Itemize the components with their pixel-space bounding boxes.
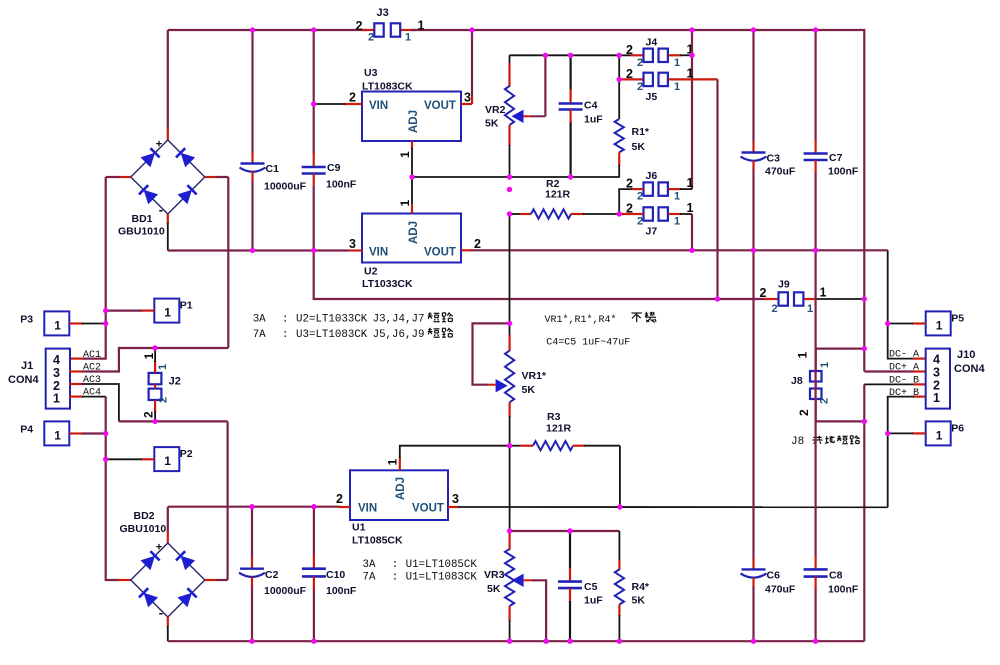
svg-text:ADJ: ADJ bbox=[408, 221, 420, 244]
wire: J4-2 riser from y55 to J5-2 and R1 bbox=[618, 55, 620, 80]
svg-text:3: 3 bbox=[452, 492, 459, 506]
svg-text:1: 1 bbox=[674, 191, 680, 203]
svg-text:-: - bbox=[159, 605, 163, 620]
wire: top bus right segment (VOUT-A rail) bbox=[411, 30, 864, 372]
jumper J9 bbox=[760, 279, 827, 316]
svg-text:1: 1 bbox=[796, 352, 810, 359]
svg-text:1: 1 bbox=[933, 391, 940, 405]
svg-text:1uF: 1uF bbox=[584, 114, 603, 126]
bridge rectifier BD1 bbox=[118, 139, 205, 238]
svg-text:+: + bbox=[156, 542, 162, 554]
connector J1 CON4 bbox=[8, 349, 70, 409]
wire: J8 pin1 up to DC+A rail bbox=[815, 359, 817, 371]
svg-text:3: 3 bbox=[933, 366, 940, 380]
svg-text:100nF: 100nF bbox=[828, 166, 859, 178]
svg-text:VOUT: VOUT bbox=[412, 503, 444, 515]
potentiometer VR1* 5K bbox=[473, 323, 547, 417]
wire: J6 pin1 to riser bbox=[669, 188, 682, 190]
svg-text:DC- A: DC- A bbox=[889, 350, 919, 361]
svg-text:VIN: VIN bbox=[369, 247, 388, 259]
svg-text:VR2: VR2 bbox=[485, 104, 506, 116]
jumper J8 (vertical) bbox=[791, 352, 831, 417]
op-amp U3 regulator LT1083CK bbox=[362, 67, 461, 141]
wire: BD1 AC left lead bbox=[118, 176, 131, 178]
wire: DC- B feed from bottom rail riser to J10 pin 2 bbox=[863, 384, 865, 641]
svg-text:J6: J6 bbox=[646, 170, 658, 182]
svg-text:2: 2 bbox=[142, 411, 156, 418]
capacitor C3 (470uF) bbox=[741, 30, 796, 250]
svg-text:DC+ B: DC+ B bbox=[889, 388, 919, 399]
wire: BD1 - corner down to 0V rail A bbox=[167, 214, 169, 225]
svg-text:5K: 5K bbox=[485, 118, 499, 130]
svg-text:C4: C4 bbox=[584, 100, 598, 112]
svg-text:P4: P4 bbox=[20, 423, 33, 435]
svg-text:1: 1 bbox=[687, 176, 694, 190]
wire: DC+ A feed to J10 pin 3 bbox=[864, 370, 914, 372]
resistor R2 121R bbox=[510, 178, 620, 219]
svg-text:J5: J5 bbox=[646, 91, 658, 103]
wire: U2 VOUT bus drop to DC- A / J10 pin 4 bbox=[888, 250, 914, 358]
connector P4 bbox=[20, 421, 69, 445]
svg-text:DC+ A: DC+ A bbox=[889, 363, 919, 374]
svg-text:J9: J9 bbox=[778, 279, 790, 291]
svg-text:121R: 121R bbox=[546, 423, 572, 435]
wire: riser top bus to BD1 + corner bbox=[167, 30, 169, 129]
svg-text:3: 3 bbox=[464, 91, 471, 105]
svg-text:1: 1 bbox=[164, 454, 171, 468]
svg-text:7A: 7A bbox=[363, 572, 376, 584]
wire: top bus left segment (BD1+ rail) bbox=[168, 29, 367, 31]
svg-text:LT1083CK: LT1083CK bbox=[362, 81, 413, 93]
svg-text::: : bbox=[392, 572, 398, 584]
svg-text:C6: C6 bbox=[767, 570, 781, 582]
svg-text:10000uF: 10000uF bbox=[264, 585, 307, 597]
wire: U3 VIN pin lead bbox=[344, 103, 362, 105]
svg-text:VIN: VIN bbox=[369, 100, 388, 112]
svg-text::: : bbox=[282, 329, 288, 341]
svg-text:2: 2 bbox=[760, 286, 767, 300]
svg-text:2: 2 bbox=[474, 237, 481, 251]
wire: left riser upper (BD1 AC-left / P1 / P3 / AC1) bbox=[82, 177, 106, 359]
svg-text:1: 1 bbox=[674, 57, 680, 69]
svg-text:GBU1010: GBU1010 bbox=[118, 226, 165, 238]
svg-text:4: 4 bbox=[933, 353, 940, 367]
wire: U2 ADJ up to ADJ node bbox=[411, 177, 413, 205]
svg-text:2: 2 bbox=[356, 19, 363, 33]
svg-text:J8: J8 bbox=[791, 375, 803, 387]
capacitor C9 (100nF) bbox=[302, 30, 357, 251]
svg-text:1: 1 bbox=[398, 151, 412, 158]
svg-text:C1: C1 bbox=[266, 163, 280, 175]
wire: VR2 bottom to ADJ line bbox=[509, 145, 511, 177]
svg-text:J3,J4,J7: J3,J4,J7 bbox=[373, 314, 425, 326]
wire: VR1 bottom to R3 node bbox=[509, 416, 511, 446]
svg-text:CON4: CON4 bbox=[954, 363, 985, 375]
svg-text:CON4: CON4 bbox=[8, 374, 39, 386]
svg-text:1: 1 bbox=[142, 353, 156, 360]
wire: J8 mid lead bbox=[815, 382, 817, 389]
capacitor C8 (100nF) bbox=[804, 250, 859, 641]
wire: left riser lower (AC4 / P4 / P2 / BD2 AC-left) bbox=[106, 397, 118, 580]
svg-text:U1=LT1085CK: U1=LT1085CK bbox=[406, 559, 478, 571]
svg-text:2: 2 bbox=[349, 91, 356, 105]
wire: U1 ADJ loop to R3 node bbox=[399, 457, 401, 470]
svg-text:2: 2 bbox=[637, 216, 643, 228]
svg-text:J5,J6,J9: J5,J6,J9 bbox=[373, 329, 425, 341]
capacitor C2 (10000uF) bbox=[239, 507, 307, 642]
svg-text:5K: 5K bbox=[632, 141, 646, 153]
svg-text:4: 4 bbox=[53, 353, 60, 367]
wire: U3 ADJ down bbox=[411, 141, 413, 149]
svg-text:U3: U3 bbox=[364, 67, 378, 79]
wire: VIN-B rail (BD2+ / C2 / C10 to U1 VIN) bbox=[168, 506, 339, 508]
svg-text:3A: 3A bbox=[363, 559, 376, 571]
svg-text:BD2: BD2 bbox=[134, 510, 155, 522]
wire: J3 pin2 lead bbox=[362, 29, 374, 31]
svg-text:1: 1 bbox=[386, 459, 400, 466]
svg-text:ADJ: ADJ bbox=[408, 110, 420, 133]
svg-text:1uF: 1uF bbox=[584, 595, 603, 607]
svg-text:R1*: R1* bbox=[632, 126, 650, 138]
svg-text:J2: J2 bbox=[169, 376, 181, 388]
svg-text:1: 1 bbox=[53, 392, 60, 406]
wire: J7 pin1 down to U2 VOUT bus bbox=[669, 213, 682, 215]
wire: U2 VIN lead bbox=[349, 249, 362, 251]
svg-text::: : bbox=[392, 559, 398, 571]
svg-text:C4=C5 1uF~47uF: C4=C5 1uF~47uF bbox=[546, 338, 630, 349]
wire: J3 pin1 lead bbox=[400, 29, 416, 31]
svg-text:J3: J3 bbox=[377, 7, 389, 19]
op-amp U2 regulator LT1033CK bbox=[362, 214, 461, 263]
svg-text:P6: P6 bbox=[951, 422, 964, 434]
wire: J8 pin2 down to DC-B rail bbox=[815, 399, 817, 411]
svg-text:1: 1 bbox=[936, 318, 943, 332]
svg-text:AC1: AC1 bbox=[83, 350, 101, 361]
wire: AC3 riser to BD2 bbox=[227, 421, 229, 580]
svg-text:2: 2 bbox=[626, 43, 633, 57]
wire: P5 lead bbox=[912, 322, 926, 324]
wire: J2 pin2 bbox=[154, 400, 156, 412]
svg-text:1: 1 bbox=[54, 428, 61, 442]
wire: ADJ node line (U3/U2 ADJ to VR2 and C4) bbox=[412, 176, 619, 178]
wire: DC+ B feed (U1 VOUT riser to J10 pin 1) bbox=[913, 396, 926, 398]
svg-text:BD1: BD1 bbox=[132, 213, 153, 225]
svg-text:1: 1 bbox=[164, 306, 171, 320]
svg-text:U3=LT1083CK: U3=LT1083CK bbox=[296, 329, 368, 341]
svg-text:1: 1 bbox=[405, 32, 411, 44]
svg-text:1: 1 bbox=[807, 303, 813, 315]
svg-text:R3: R3 bbox=[547, 411, 561, 423]
svg-text:2: 2 bbox=[797, 409, 811, 416]
wire: J2 pin1 bbox=[154, 361, 156, 373]
note: 7A config U3 bbox=[253, 328, 453, 341]
svg-text:100nF: 100nF bbox=[326, 179, 357, 191]
potentiometer VR2 5K bbox=[485, 55, 545, 146]
note: 3A config U2 bbox=[253, 312, 453, 325]
svg-text:1: 1 bbox=[54, 318, 61, 332]
svg-text:J7: J7 bbox=[646, 226, 658, 238]
wire: AC3 path to BD2 right bbox=[69, 383, 83, 385]
wire: BD1 AC right lead bbox=[205, 176, 217, 178]
wire: U1 VOUT line to DC+B riser bbox=[448, 506, 459, 508]
note: VR1 R1 R4 not installed bbox=[545, 312, 657, 326]
connector J10 CON4 bbox=[926, 349, 986, 409]
svg-text:-: - bbox=[159, 202, 163, 217]
svg-text:C5: C5 bbox=[584, 581, 598, 593]
wire: AC2 riser (BD1 right to AC2 line) bbox=[227, 177, 229, 348]
bridge rectifier BD2 bbox=[120, 510, 205, 620]
svg-text:2: 2 bbox=[637, 81, 643, 93]
jumper J6 bbox=[626, 170, 694, 203]
connector P5 bbox=[926, 311, 965, 335]
svg-text:1: 1 bbox=[820, 286, 827, 300]
wire: P3 lead bbox=[69, 322, 83, 324]
svg-text:470uF: 470uF bbox=[765, 166, 796, 178]
svg-text:2: 2 bbox=[336, 492, 343, 506]
svg-text:100nF: 100nF bbox=[326, 585, 357, 597]
wire: AC2 path to BD1 right bbox=[69, 370, 83, 372]
wire: VR2/VR1 column (R2 node down to VR1) bbox=[509, 214, 511, 336]
wire: riser x=717.5 (J5-1 down to J9-2 line) bbox=[716, 79, 718, 299]
svg-text:1: 1 bbox=[687, 201, 694, 215]
svg-text:U1=LT1083CK: U1=LT1083CK bbox=[406, 572, 478, 584]
svg-text:3: 3 bbox=[349, 237, 356, 251]
svg-text:VOUT: VOUT bbox=[424, 100, 456, 112]
svg-text:2: 2 bbox=[772, 303, 778, 315]
svg-text:121R: 121R bbox=[545, 189, 571, 201]
svg-text:U1: U1 bbox=[352, 522, 366, 534]
svg-text:7A: 7A bbox=[253, 329, 266, 341]
wire: BD2 AC right lead bbox=[205, 579, 217, 581]
wire: bottom bus (BD2- rail) bbox=[168, 640, 865, 642]
resistor R4* 5K bbox=[615, 531, 650, 641]
svg-text:DC- B: DC- B bbox=[889, 376, 919, 387]
op-amp U1 regulator LT1085CK bbox=[350, 470, 448, 520]
svg-text:U2: U2 bbox=[364, 266, 378, 278]
wire: U1 VIN lead bbox=[338, 506, 350, 508]
connector P6 bbox=[926, 421, 965, 445]
svg-text:J1: J1 bbox=[21, 360, 33, 372]
resistor R1* 5K bbox=[615, 79, 650, 177]
svg-text:5K: 5K bbox=[487, 583, 501, 595]
wire: VR1/VR3 column through VOUT crossing bbox=[509, 446, 511, 531]
svg-text:VIN: VIN bbox=[358, 503, 377, 515]
connector P2 bbox=[154, 447, 193, 471]
svg-text:2: 2 bbox=[368, 32, 374, 44]
svg-text:J10: J10 bbox=[957, 349, 975, 361]
svg-text:VR1*: VR1* bbox=[522, 370, 547, 382]
wire: P4 lead bbox=[69, 432, 83, 434]
wire: VOUT-A rail riser x=692 bbox=[691, 30, 693, 189]
jumper J7 bbox=[626, 201, 694, 238]
connector P1 bbox=[154, 299, 193, 323]
wire: R3 right drop to U1 VOUT line bbox=[619, 446, 621, 507]
svg-text:1: 1 bbox=[674, 216, 680, 228]
wire: VR2 top line to J4-2 (y=55) bbox=[510, 54, 632, 56]
wire: J4 pin1 to rail bbox=[669, 54, 682, 56]
capacitor C1 (10000uF electrolytic) bbox=[240, 30, 307, 251]
svg-text:U2=LT1033CK: U2=LT1033CK bbox=[296, 314, 368, 326]
wire: U2 VOUT bus to right bbox=[471, 249, 888, 251]
svg-text:P1: P1 bbox=[180, 300, 193, 312]
svg-text:C7: C7 bbox=[829, 152, 843, 164]
wire: J9 pin2 lead bbox=[764, 298, 779, 300]
svg-text:100nF: 100nF bbox=[828, 584, 859, 596]
wire: J2 mid lead bbox=[154, 384, 156, 388]
svg-text:VR3: VR3 bbox=[484, 569, 505, 581]
svg-text:1: 1 bbox=[674, 81, 680, 93]
svg-text:VOUT: VOUT bbox=[424, 247, 456, 259]
svg-text:P2: P2 bbox=[180, 448, 193, 460]
svg-text:C9: C9 bbox=[327, 162, 341, 174]
svg-text:3: 3 bbox=[53, 366, 60, 380]
svg-text:1: 1 bbox=[418, 19, 425, 33]
wire: J4 pin2 lead bbox=[631, 54, 644, 56]
capacitor C10 (100nF) bbox=[302, 507, 357, 642]
wire: J5 pin2 lead bbox=[619, 78, 643, 80]
capacitor C7 (100nF) bbox=[804, 30, 859, 250]
jumper J2 (vertical) bbox=[142, 353, 181, 419]
wire: U2 VOUT lead bbox=[461, 249, 472, 251]
svg-text:5K: 5K bbox=[632, 595, 646, 607]
capacitor C6 (470uF) bbox=[741, 250, 796, 641]
wire: AC4 path bbox=[69, 396, 83, 398]
svg-text:C2: C2 bbox=[265, 569, 279, 581]
wire: J5 pin1 to x=717 riser bbox=[669, 78, 718, 80]
wire: 0V rail A (BD1- / C1 / C9 to U2 VIN) bbox=[168, 249, 349, 251]
capacitor C4 (1uF) bbox=[559, 55, 604, 177]
resistor R3 121R bbox=[510, 411, 620, 450]
svg-text:ADJ: ADJ bbox=[395, 477, 407, 500]
svg-text:C10: C10 bbox=[326, 569, 345, 581]
wire: J7 pin2 lead bbox=[619, 213, 643, 215]
svg-text:P5: P5 bbox=[951, 312, 964, 324]
wire: J9 pin1 lead bbox=[804, 298, 816, 300]
svg-text:2: 2 bbox=[819, 398, 831, 404]
svg-text:10000uF: 10000uF bbox=[264, 181, 307, 193]
wire: divider rail y=531 (VR3 / C5 / R4) bbox=[510, 530, 620, 532]
wire: BD2 + corner to VIN-B rail bbox=[167, 530, 169, 543]
svg-text:5K: 5K bbox=[522, 384, 536, 396]
jumper J3 bbox=[356, 7, 425, 44]
wire: P1 lead bbox=[141, 310, 154, 312]
svg-text:2: 2 bbox=[637, 57, 643, 69]
svg-text:GBU1010: GBU1010 bbox=[120, 523, 167, 535]
svg-text:VR1*,R1*,R4*: VR1*,R1*,R4* bbox=[545, 314, 617, 326]
svg-text:1: 1 bbox=[398, 200, 412, 207]
svg-text:+: + bbox=[156, 139, 162, 151]
wire: raw rail A extension down to J9-2 bbox=[314, 251, 765, 300]
svg-text:2: 2 bbox=[158, 397, 170, 403]
wire: BD2 AC-left lead bbox=[117, 579, 131, 581]
svg-text:R4*: R4* bbox=[632, 581, 650, 593]
svg-text:1: 1 bbox=[157, 364, 169, 370]
wire: J6 pin2 drop to J7/R2 node bbox=[631, 188, 644, 190]
wire: P2 lead bbox=[141, 458, 154, 460]
capacitor C5 (1uF) bbox=[558, 531, 603, 641]
svg-text:1: 1 bbox=[936, 428, 943, 442]
svg-text::: : bbox=[282, 314, 288, 326]
svg-text:J4: J4 bbox=[646, 36, 658, 48]
svg-text:2: 2 bbox=[626, 67, 633, 81]
svg-text:LT1033CK: LT1033CK bbox=[362, 278, 413, 290]
svg-text:LT1085CK: LT1085CK bbox=[352, 535, 403, 547]
wire: U3 VOUT up to output rail bbox=[461, 103, 472, 105]
wire: BD2 - corner to bottom bus bbox=[167, 617, 169, 628]
svg-text:470uF: 470uF bbox=[765, 584, 796, 596]
svg-text:C8: C8 bbox=[829, 570, 843, 582]
potentiometer VR3 5K bbox=[484, 531, 546, 641]
svg-text:C3: C3 bbox=[767, 153, 781, 165]
jumper J5 bbox=[626, 66, 694, 103]
connector P3 bbox=[20, 311, 69, 335]
svg-text:P3: P3 bbox=[20, 313, 33, 325]
svg-text:J8: J8 bbox=[791, 436, 804, 448]
svg-text:2: 2 bbox=[637, 191, 643, 203]
wire: AC1 lead bbox=[69, 358, 83, 360]
svg-text:1: 1 bbox=[819, 362, 831, 368]
jumper J4 bbox=[626, 36, 694, 69]
svg-text:3A: 3A bbox=[253, 314, 266, 326]
wire: P6 lead bbox=[912, 432, 926, 434]
